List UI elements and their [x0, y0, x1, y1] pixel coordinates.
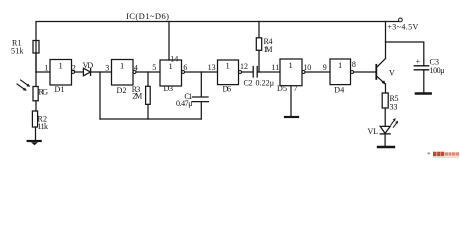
gate D5	[277, 59, 302, 93]
svg-text:D1: D1	[55, 85, 65, 94]
wire LED to ground	[384, 134, 386, 146]
svg-text:51k: 51k	[11, 47, 24, 56]
svg-text:0.47μ: 0.47μ	[176, 99, 193, 108]
wire R5 to LED	[384, 108, 386, 126]
wire collector to rail	[385, 22, 387, 59]
gate D3	[160, 60, 182, 93]
ground (LED)	[378, 146, 394, 148]
wire C2 to D5 input	[257, 71, 280, 73]
svg-text:12: 12	[240, 62, 248, 71]
wire VD to D2 input	[91, 71, 112, 73]
svg-text:11k: 11k	[38, 122, 49, 131]
svg-text:C2: C2	[244, 79, 253, 88]
gate D4	[330, 59, 351, 95]
wire emitter to R5	[385, 84, 387, 93]
wire branch to C3	[386, 42, 424, 66]
ground (left)	[28, 141, 41, 145]
svg-text:0.22μ: 0.22μ	[256, 79, 275, 88]
RG light arrows	[17, 80, 30, 91]
wire D1 out to VD	[75, 71, 84, 73]
wire D6 out to C2	[242, 71, 254, 73]
ground (D5 pin 7)	[285, 116, 298, 118]
svg-text:1: 1	[120, 60, 124, 70]
svg-text:1: 1	[226, 61, 230, 71]
resistor R3	[132, 72, 151, 119]
transistor V	[376, 59, 395, 85]
svg-text:11: 11	[272, 63, 280, 72]
wire RG to R2	[35, 101, 37, 111]
wire top supply rail	[36, 22, 399, 73]
D3 output bubble	[182, 71, 185, 74]
svg-text:8: 8	[352, 60, 356, 69]
power terminal +3~4.5V	[399, 18, 403, 22]
diode VD	[83, 61, 94, 76]
gate D6	[218, 60, 239, 94]
svg-text:14: 14	[170, 54, 178, 63]
svg-text:2M: 2M	[132, 91, 142, 100]
svg-text:100μ: 100μ	[430, 66, 445, 75]
svg-text:3: 3	[105, 64, 109, 73]
resistor R5	[382, 93, 398, 112]
svg-text:VL: VL	[368, 127, 379, 136]
LED VL	[368, 118, 399, 136]
svg-text:VD: VD	[83, 61, 94, 70]
svg-text:IC(D1~D6): IC(D1~D6)	[126, 11, 169, 21]
svg-text:V: V	[389, 69, 395, 78]
pin 7 ground wire	[290, 86, 292, 116]
wire node to D1 input	[36, 71, 50, 73]
svg-text:1: 1	[289, 60, 293, 70]
photoresistor RG	[33, 72, 48, 101]
svg-text:1: 1	[338, 60, 342, 70]
svg-text:D5: D5	[277, 84, 287, 93]
svg-text:+: +	[416, 57, 421, 66]
svg-text:13: 13	[208, 63, 216, 72]
svg-text:+3~4.5V: +3~4.5V	[387, 23, 418, 32]
wire D3 out to D6 input	[185, 71, 218, 73]
wire D4 out to transistor base	[354, 71, 376, 73]
svg-text:1: 1	[59, 60, 63, 70]
D1 output bubble	[72, 71, 75, 74]
svg-text:RG: RG	[39, 88, 49, 97]
capacitor C1	[176, 72, 208, 119]
D4 output bubble	[351, 71, 354, 74]
wire R2 to ground	[35, 127, 37, 141]
D6 output bubble	[239, 71, 242, 74]
wire D2 out to D3 input	[136, 71, 160, 73]
resistor R1	[11, 39, 39, 56]
wire R1 to node	[35, 53, 37, 72]
gate D1	[50, 60, 72, 95]
svg-text:D3: D3	[164, 84, 174, 93]
svg-text:33: 33	[390, 103, 398, 112]
D5 output bubble	[302, 71, 305, 74]
resistor R2	[32, 111, 48, 131]
wire D5 out to D4 input	[305, 71, 330, 73]
svg-text:D6: D6	[223, 85, 232, 94]
svg-text:5: 5	[152, 63, 156, 72]
gate D2	[112, 60, 134, 96]
capacitor C2	[244, 67, 275, 88]
node feedback junction, wire down	[99, 72, 101, 119]
wire feedback bottom	[100, 118, 201, 120]
watermark	[427, 152, 459, 158]
svg-text:D2: D2	[117, 86, 127, 95]
svg-text:D4: D4	[334, 86, 344, 95]
D2 output bubble	[133, 71, 136, 74]
svg-text:1M: 1M	[264, 45, 273, 54]
svg-text:9: 9	[323, 63, 327, 72]
ground (C3)	[416, 92, 431, 94]
svg-text:1: 1	[45, 64, 49, 73]
pin 14 wire from rail	[168, 22, 170, 61]
wire C3 to ground	[423, 70, 425, 92]
resistor R4	[256, 22, 272, 73]
capacitor C3	[414, 57, 444, 75]
svg-text:7: 7	[294, 84, 298, 93]
